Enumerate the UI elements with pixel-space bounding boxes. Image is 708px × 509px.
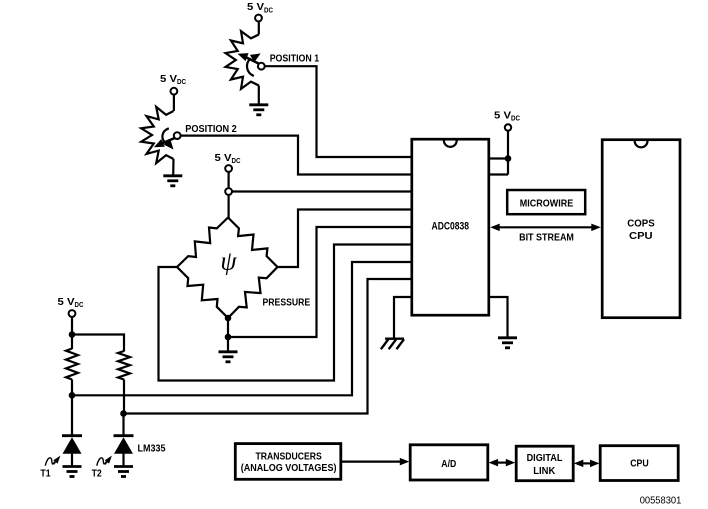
CPU box (600, 446, 678, 481)
ground below R2 (163, 176, 182, 186)
svg-text:5 V: 5 V (160, 74, 177, 85)
R1 wiper node POSITION 1 (258, 63, 265, 70)
bridge resistor top-right (228, 218, 278, 268)
resistor R3 (66, 349, 78, 380)
svg-text:5 V: 5 V (247, 2, 264, 13)
wire T2 node to diode T2 (122, 414, 124, 437)
wire bridge bottom to ADC CH4 (228, 227, 412, 337)
potentiometer R1 (POSITION 1) (226, 31, 259, 89)
svg-text:POSITION 1: POSITION 1 (270, 52, 320, 64)
wire POSITION 1 to ADC CH0 (265, 66, 412, 157)
svg-text:PRESSURE: PRESSURE (263, 297, 311, 309)
LM335 diode T2 (114, 436, 134, 466)
wire bridge bottom to ground tap (227, 318, 229, 337)
R2 wiper arrow (154, 128, 176, 149)
bridge resistor bottom-right (228, 267, 278, 318)
ground below bridge (219, 352, 238, 362)
TRANSDUCERS box (235, 444, 340, 480)
wire R1 to ground (258, 86, 260, 105)
svg-text:ψ: ψ (220, 247, 237, 276)
svg-text:TRANSDUCERS: TRANSDUCERS (255, 451, 321, 463)
chassis ground below ADC (381, 339, 404, 350)
psi symbol in bridge (220, 247, 237, 276)
svg-text:LM335: LM335 (138, 443, 166, 455)
MICROWIRE box (507, 190, 585, 214)
svg-text:DIGITAL: DIGITAL (527, 452, 563, 464)
ground right of ADC (498, 338, 517, 348)
BIT STREAM label (519, 231, 574, 243)
svg-text:CPU: CPU (630, 457, 649, 469)
bridge ground tap node (225, 334, 232, 341)
R2 wiper node POSITION 2 (174, 132, 181, 139)
supply junction node (69, 331, 76, 338)
5V supply terminal for R1 (255, 15, 262, 22)
svg-text:DC: DC (232, 156, 241, 165)
wire POSITION 2 to ADC CH1 (181, 136, 412, 175)
T1 sense node (69, 392, 76, 399)
bridge resistor top-left (177, 218, 228, 268)
5V supply terminal for ADC (505, 124, 511, 130)
bridge bottom node (225, 315, 232, 322)
A/D box (410, 445, 488, 480)
5 VDC label for LM335 (58, 297, 84, 309)
LM335 diode T1 (62, 436, 82, 466)
svg-text:5 V: 5 V (58, 297, 75, 308)
wire 5V to ADC VCC (507, 131, 509, 175)
5 VDC label for ADC (494, 111, 520, 123)
wire T2 node to ADC CH7 (124, 279, 413, 414)
5 VDC label for R1 (247, 2, 273, 14)
wire junction to R3 (71, 335, 73, 350)
wire bridge left node to ADC CH5 (159, 245, 413, 381)
wire 5V to R2 (173, 95, 175, 111)
wire R2 to ground (172, 159, 175, 176)
COPS CPU package U2 (602, 140, 680, 318)
5V supply terminal for bridge (225, 165, 232, 172)
ADC VCC node (505, 155, 512, 162)
svg-text:5 V: 5 V (215, 153, 232, 164)
op-amp U1 ADC0838 package (412, 139, 489, 315)
T1 label (40, 467, 50, 479)
bus arrow DIGITAL LINK to CPU (574, 460, 600, 468)
DIGITAL LINK box (516, 446, 573, 481)
svg-text:LINK: LINK (533, 465, 555, 477)
svg-text:T1: T1 (40, 467, 50, 479)
svg-text:T2: T2 (92, 467, 102, 479)
wire bridge right node to ADC CH3 (278, 210, 413, 268)
T2 sense node (120, 410, 127, 417)
5 VDC label for R2 (160, 74, 186, 86)
svg-text:DC: DC (264, 5, 273, 14)
wire T1 node to ADC CH6 (72, 262, 412, 395)
svg-text:5 V: 5 V (494, 111, 511, 122)
wire 5V to bridge tap (228, 172, 230, 188)
POSITION 1 label (270, 52, 320, 64)
wire VCC node to ADC pin (489, 157, 508, 159)
resistor R4 (118, 351, 130, 380)
T2 adjust arrow (97, 456, 112, 466)
wire VREF to ADC pin (489, 173, 508, 175)
5V supply terminal for LM335 (69, 310, 76, 317)
wire bridge tap to ADC CH2 (232, 190, 412, 192)
LM335 label (138, 443, 166, 455)
svg-text:CPU: CPU (629, 230, 653, 242)
bridge resistor bottom-left (177, 267, 228, 318)
svg-text:A/D: A/D (441, 458, 456, 470)
wire 5V to R1 (258, 21, 260, 34)
ground below T2 (114, 467, 133, 477)
svg-text:BIT STREAM: BIT STREAM (519, 231, 574, 243)
ground below R1 (249, 105, 268, 115)
svg-text:DC: DC (75, 300, 84, 309)
wire ADC AGND to chassis ground (394, 297, 412, 339)
svg-text:(ANALOG VOLTAGES): (ANALOG VOLTAGES) (241, 462, 337, 474)
svg-text:POSITION 2: POSITION 2 (185, 123, 237, 135)
wire R4 to T2 node (122, 380, 125, 414)
POSITION 2 label (185, 123, 237, 135)
bridge tap node (225, 188, 232, 195)
bus arrow A/D to DIGITAL LINK (489, 459, 516, 467)
wire ADC DGND to ground (488, 297, 508, 338)
wire bridge bottom to ground (227, 337, 229, 352)
svg-text:ADC0838: ADC0838 (432, 221, 470, 233)
arrow TRANSDUCERS to A/D (341, 458, 409, 466)
5 VDC label for bridge (215, 153, 241, 165)
svg-text:DC: DC (511, 114, 520, 123)
svg-text:MICROWIRE: MICROWIRE (520, 198, 573, 210)
svg-text:DC: DC (177, 77, 186, 86)
figure number 00558301 (640, 495, 682, 507)
wire R3 to T1 node (71, 380, 73, 396)
potentiometer R2 (POSITION 2) (141, 107, 173, 163)
wire tap to bridge top (228, 195, 230, 218)
svg-text:00558301: 00558301 (640, 495, 682, 507)
T2 label (92, 467, 102, 479)
wire 5V to junction (71, 317, 73, 335)
wire junction to R4 (72, 335, 124, 352)
5V supply terminal for R2 (171, 88, 178, 95)
wire T1 node to diode T1 (71, 395, 73, 436)
ground below T1 (63, 467, 82, 477)
PRESSURE label (263, 297, 311, 309)
BIT STREAM bus arrow (490, 224, 601, 232)
R1 wiper arrow (238, 53, 262, 76)
T1 adjust arrow (45, 456, 60, 466)
svg-text:COPS: COPS (627, 218, 654, 230)
